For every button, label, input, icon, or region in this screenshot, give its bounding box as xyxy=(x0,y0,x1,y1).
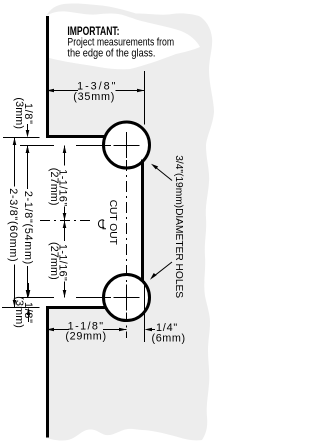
svg-text:(3mm): (3mm) xyxy=(13,97,25,129)
svg-text:(6mm): (6mm) xyxy=(152,333,186,345)
cutout top edge xyxy=(46,135,105,138)
torn white pocket holding the note text xyxy=(46,11,200,69)
left extension line at cutout bottom edge level xyxy=(2,307,40,309)
svg-text:2-3/8"(60mm): 2-3/8"(60mm) xyxy=(7,188,19,262)
svg-text:CUT OUT: CUT OUT xyxy=(107,200,118,245)
glass panel (gray, torn wavy edges, with cutout notch) xyxy=(46,3,214,440)
hole H2 center mark xyxy=(114,285,140,311)
svg-text:(27mm): (27mm) xyxy=(48,168,60,206)
note text IMPORTANT xyxy=(67,26,174,59)
hole H1 center mark xyxy=(114,132,140,158)
dimension 1-1/8 (29mm) xyxy=(47,320,127,342)
leader to hole H1 xyxy=(154,166,172,181)
dimension 1-3/8 (35mm) xyxy=(47,71,145,125)
dimension 2-3/8 (60mm) xyxy=(7,138,19,308)
glass edge line lower xyxy=(46,306,49,438)
svg-text:(27mm): (27mm) xyxy=(48,242,60,280)
hole H1 top circle xyxy=(104,122,150,168)
svg-text:3/4"(19mm)DIAMETER HOLES: 3/4"(19mm)DIAMETER HOLES xyxy=(173,155,184,298)
dimension 1/8 (3mm) top xyxy=(13,97,34,160)
svg-text:(29mm): (29mm) xyxy=(65,331,106,343)
glass edge line upper xyxy=(46,16,49,138)
horizontal cutout mid centerline (dashed) xyxy=(40,220,91,222)
svg-text:(3mm): (3mm) xyxy=(13,296,25,328)
svg-text:2-1/8"(54mm): 2-1/8"(54mm) xyxy=(22,191,34,265)
left extension line at cutout top edge level xyxy=(3,137,40,139)
cutout right wall xyxy=(141,160,144,284)
label 3/4 (19mm) DIAMETER HOLES xyxy=(150,155,184,298)
leader to hole H2 xyxy=(153,262,173,277)
dimension 1/4 (6mm) xyxy=(145,281,186,345)
centerline symbol xyxy=(98,220,106,229)
dimension 2-1/8 (54mm) xyxy=(22,146,34,298)
cutout bottom edge xyxy=(46,306,106,309)
svg-text:the edge of the glass.: the edge of the glass. xyxy=(67,48,155,60)
dimension 1/8 (3mm) bottom xyxy=(13,283,34,328)
dimension 1-1/16 (27mm) upper xyxy=(48,146,69,221)
vertical hole centerline (dashed) xyxy=(126,160,128,283)
left extension line at bottom hole center level xyxy=(20,297,54,299)
svg-text:(35mm): (35mm) xyxy=(73,91,115,103)
dimension 1-1/16 (27mm) lower xyxy=(48,221,69,298)
left extension line at top hole center level xyxy=(20,145,54,147)
hole H2 bottom circle xyxy=(104,275,150,321)
